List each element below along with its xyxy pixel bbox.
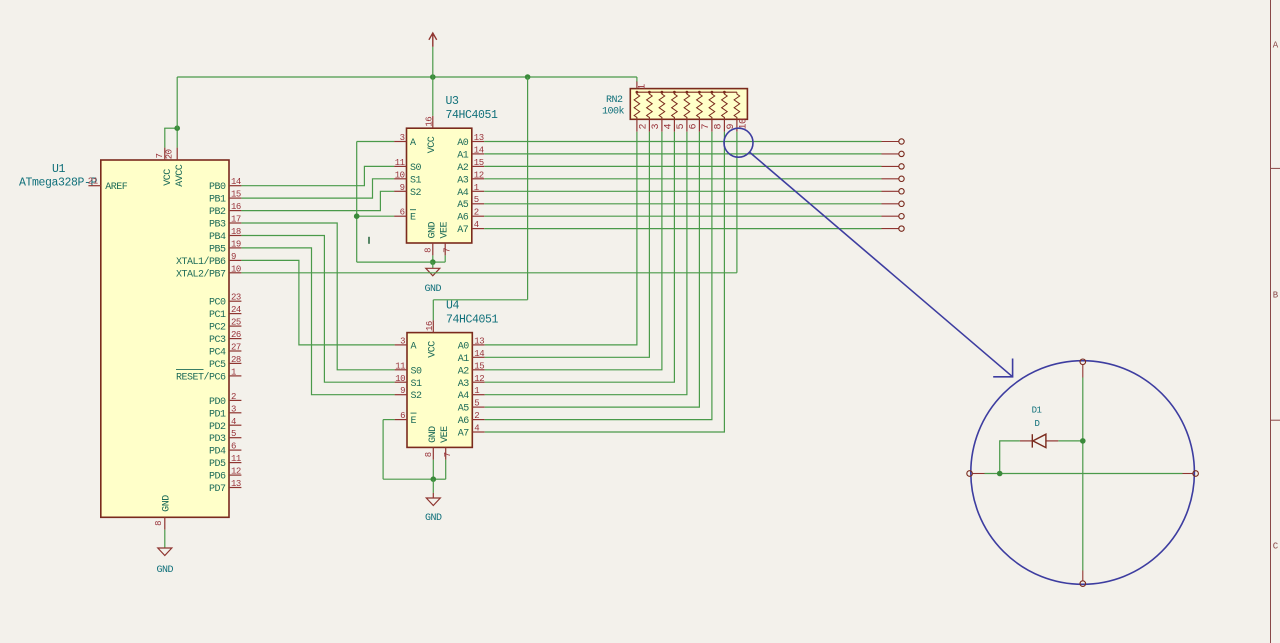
svg-text:10: 10 — [395, 170, 405, 180]
svg-text:VEE: VEE — [440, 221, 451, 238]
RN2 pin 3 — [648, 119, 650, 131]
svg-text:4: 4 — [474, 424, 479, 434]
svg-text:PB5: PB5 — [209, 244, 226, 255]
svg-text:A4: A4 — [458, 391, 470, 402]
svg-text:11: 11 — [395, 158, 405, 168]
RN2 resistor element 9 zigzag — [722, 92, 728, 119]
svg-text:PC3: PC3 — [209, 335, 226, 346]
U4 pin VEE (7) — [445, 447, 447, 459]
svg-text:26: 26 — [231, 330, 241, 340]
node left open circle — [967, 471, 973, 477]
svg-text:A1: A1 — [457, 150, 469, 161]
callout big circle — [971, 361, 1195, 585]
U1 pin XTAL2/PB7 (10) — [229, 272, 241, 274]
sheet frame right border — [1270, 0, 1272, 643]
svg-text:PB0: PB0 — [209, 182, 226, 193]
svg-text:20: 20 — [165, 149, 175, 159]
svg-text:1: 1 — [637, 84, 648, 90]
U3 pin A2 (15) — [472, 165, 484, 167]
wire U4 GND pin down — [432, 460, 434, 479]
U1 pin PC5 (28) — [229, 362, 241, 364]
IC U4 74HC4051 body — [407, 333, 472, 448]
wire U4 GND node to symbol — [432, 479, 434, 493]
wire U4 VEE pin down — [445, 460, 447, 479]
svg-text:2: 2 — [474, 208, 479, 218]
svg-text:7: 7 — [701, 124, 712, 130]
svg-text:6: 6 — [689, 124, 700, 130]
U4 pin S1 (10) — [395, 381, 407, 383]
wire RN2 pin 7 to U4 A5 — [485, 132, 700, 407]
U3 pin A0 (13) — [472, 141, 484, 143]
wire horizontal through circle — [972, 473, 984, 475]
open connection circle A4 — [899, 189, 904, 194]
svg-text:S1: S1 — [411, 379, 423, 390]
RN2 resistor element 4 zigzag — [659, 92, 665, 119]
node right open circle — [1193, 471, 1199, 477]
svg-text:PB1: PB1 — [209, 195, 226, 206]
svg-text:A7: A7 — [457, 225, 469, 236]
wire U3 A1 output — [484, 153, 881, 155]
svg-text:PD1: PD1 — [209, 409, 226, 420]
svg-text:16: 16 — [424, 117, 434, 127]
RN2 resistor element 8 zigzag — [709, 92, 715, 119]
svg-text:15: 15 — [474, 158, 484, 168]
U1 pin GND (8) — [164, 517, 166, 529]
svg-text:15: 15 — [474, 361, 484, 371]
RN2 resistor element 10 zigzag — [734, 92, 740, 119]
wire RN2 pin 10 column — [736, 132, 738, 273]
RN2 resistor element 7 zigzag — [697, 92, 703, 119]
junction rail / U4 VCC feed — [525, 74, 531, 80]
svg-text:D: D — [1035, 419, 1040, 429]
U1 pin XTAL1/PB6 (9) — [229, 259, 241, 261]
RN2 pin 4 — [661, 119, 663, 131]
svg-text:10: 10 — [231, 264, 241, 274]
wire PB0 to U3 S0 — [241, 166, 394, 185]
svg-text:GND: GND — [427, 221, 438, 238]
svg-text:VCC: VCC — [428, 341, 439, 358]
svg-text:PD5: PD5 — [209, 459, 226, 470]
svg-text:GND: GND — [428, 426, 439, 443]
U1 pin PD6 (12) — [229, 474, 241, 476]
wire U3 GND node to symbol — [432, 262, 434, 268]
RN2 common rail — [637, 91, 737, 93]
wire U4 VEE to GND — [433, 478, 445, 480]
wire U3 A2 output — [484, 165, 881, 167]
svg-text:1: 1 — [474, 183, 479, 193]
wire XTAL2/PB7 to RN2 pin 10 — [241, 272, 737, 274]
wire PB3 to U4 S0 — [241, 223, 394, 370]
U1 pin PC0 (23) — [229, 300, 241, 302]
svg-text:XTAL1/PB6: XTAL1/PB6 — [176, 256, 226, 268]
U1 pin RESET/PC6 (1) — [229, 375, 241, 377]
wire U3 A3 output — [484, 178, 881, 180]
wire RN2 pin 8 to U4 A6 — [485, 132, 712, 420]
U3 pin A5 (5) — [472, 203, 484, 205]
open connection circle A2 — [899, 164, 904, 169]
svg-text:U1: U1 — [52, 163, 66, 176]
open connection circle A5 — [899, 201, 904, 206]
U3 pin VEE (7) — [444, 243, 446, 255]
diode D1 — [1020, 440, 1032, 442]
U1 pin PD1 (3) — [229, 412, 241, 414]
svg-text:3: 3 — [651, 124, 662, 130]
ground symbol below U3 — [426, 268, 440, 276]
RN2 pin 10 — [736, 119, 738, 131]
svg-text:23: 23 — [231, 293, 241, 303]
RN2 pin 7 — [698, 119, 700, 131]
U3 pin S1 (10) — [394, 178, 406, 180]
callout arrow line — [750, 152, 1013, 377]
RN2 resistor element 2 zigzag — [634, 92, 640, 119]
svg-text:9: 9 — [400, 183, 405, 193]
wire U3 A/E ground riser — [356, 142, 358, 263]
svg-text:4: 4 — [474, 220, 479, 230]
wire U3 A0 output — [484, 141, 881, 143]
svg-text:17: 17 — [231, 215, 241, 225]
svg-text:A3: A3 — [458, 379, 470, 390]
svg-text:PB2: PB2 — [209, 207, 226, 218]
svg-text:S0: S0 — [411, 366, 423, 377]
svg-text:ATmega328P-P: ATmega328P-P — [19, 177, 98, 190]
U1 pin PD2 (4) — [229, 424, 241, 426]
U1 pin PD7 (13) — [229, 487, 241, 489]
svg-text:PB3: PB3 — [209, 220, 226, 231]
U1 pin PC1 (24) — [229, 313, 241, 315]
svg-text:8: 8 — [714, 124, 725, 130]
U4 pin A3 (12) — [472, 381, 484, 383]
svg-text:VCC: VCC — [427, 136, 438, 153]
svg-text:9: 9 — [231, 252, 236, 262]
RN2 resistor element 6 zigzag — [684, 92, 690, 119]
wire PB2 to U3 S2 — [241, 191, 394, 210]
callout arrow head — [993, 359, 1012, 377]
VCC power symbol arrow — [432, 47, 434, 77]
svg-text:A2: A2 — [457, 163, 469, 174]
wire RN2 pin 2 to U4 A0 — [485, 132, 637, 345]
svg-text:6: 6 — [400, 411, 405, 421]
svg-text:5: 5 — [474, 195, 479, 205]
U1 pin PC3 (26) — [229, 338, 241, 340]
open connection circle A3 — [899, 176, 904, 181]
wire U3 A6 output — [484, 215, 881, 217]
junction U4 GND node — [431, 476, 437, 482]
svg-text:D1: D1 — [1032, 405, 1042, 415]
wire XTAL1/PB6 to U4 A — [241, 260, 394, 345]
svg-text:27: 27 — [231, 343, 241, 353]
svg-text:S2: S2 — [410, 188, 422, 199]
svg-text:VEE: VEE — [440, 426, 451, 443]
svg-text:1: 1 — [474, 386, 479, 396]
svg-text:21: 21 — [88, 177, 98, 187]
RN2 resistor element 3 zigzag — [647, 92, 653, 119]
svg-text:GND: GND — [425, 513, 442, 524]
junction above AVCC — [174, 125, 180, 131]
svg-text:PC1: PC1 — [209, 310, 226, 321]
svg-text:13: 13 — [231, 479, 241, 489]
svg-text:A: A — [410, 138, 416, 149]
wire rail riser to U4 VCC — [527, 77, 529, 300]
svg-text:RN2: RN2 — [606, 95, 623, 106]
U3 pin A3 (12) — [472, 178, 484, 180]
svg-text:VCC: VCC — [163, 169, 174, 186]
U4 pin GND (8) — [432, 447, 434, 459]
U4 pin A0 (13) — [472, 344, 484, 346]
svg-text:6: 6 — [231, 442, 236, 452]
svg-text:A0: A0 — [457, 138, 469, 149]
svg-text:25: 25 — [231, 318, 241, 328]
RN2 pin 5 — [673, 119, 675, 131]
U1 pin PD3 (5) — [229, 437, 241, 439]
wire U3 A7 output — [484, 228, 881, 230]
wire rail to RN2 pin 1 — [636, 77, 638, 82]
U1 pin VCC (7) — [164, 148, 166, 160]
svg-text:A1: A1 — [458, 354, 470, 365]
stray cursor mark — [368, 237, 370, 244]
wire U3 VEE pin down — [444, 255, 446, 262]
svg-text:E: E — [410, 213, 416, 224]
IC U1 ATmega328P-P body — [101, 160, 229, 517]
svg-text:U4: U4 — [446, 299, 460, 312]
wire RN2 pin 3 to U4 A1 — [485, 132, 650, 358]
junction U3 GND node — [430, 259, 436, 265]
VCC power rail horizontal — [177, 76, 637, 78]
U3 pin A4 (1) — [472, 190, 484, 192]
U4 pin A5 (5) — [472, 406, 484, 408]
svg-text:8: 8 — [154, 521, 164, 526]
svg-text:AREF: AREF — [105, 182, 128, 193]
svg-text:5: 5 — [676, 124, 687, 130]
svg-text:7: 7 — [443, 452, 453, 457]
svg-text:4: 4 — [664, 124, 675, 130]
svg-text:74HC4051: 74HC4051 — [446, 313, 499, 326]
U1 pin PB1 (15) — [229, 197, 241, 199]
svg-text:74HC4051: 74HC4051 — [446, 109, 499, 122]
open connection circle A0 — [899, 139, 904, 144]
junction diode branch — [997, 471, 1003, 477]
U3 pin A7 (4) — [472, 228, 484, 230]
IC U3 74HC4051 body — [407, 128, 472, 243]
svg-text:9: 9 — [400, 386, 405, 396]
RN2 pin 9 — [723, 119, 725, 131]
wire VCC-AVCC jog — [164, 127, 177, 129]
svg-text:6: 6 — [400, 208, 405, 218]
wire to U3 pin A — [357, 141, 394, 143]
svg-text:28: 28 — [231, 355, 241, 365]
svg-text:GND: GND — [162, 495, 173, 512]
wire U3 GND pin down — [432, 255, 434, 262]
svg-text:S1: S1 — [410, 175, 422, 186]
U3 pin VCC (16) — [432, 116, 434, 128]
svg-text:RESET/PC6: RESET/PC6 — [176, 371, 226, 383]
ground symbol below U1 — [158, 548, 172, 556]
svg-text:E: E — [411, 416, 417, 427]
resistor network RN2 body — [630, 89, 747, 120]
U1 pin PB5 (19) — [229, 247, 241, 249]
svg-text:11: 11 — [395, 361, 405, 371]
svg-text:5: 5 — [231, 429, 236, 439]
svg-text:3: 3 — [231, 404, 236, 414]
svg-text:A4: A4 — [457, 188, 469, 199]
junction diode to vertical — [1080, 438, 1086, 444]
svg-text:13: 13 — [474, 133, 484, 143]
wire VCC pin up — [164, 128, 166, 147]
svg-text:GND: GND — [425, 284, 442, 295]
U4 pin A7 (4) — [472, 431, 484, 433]
svg-text:14: 14 — [474, 145, 484, 155]
wire diode branch — [1000, 441, 1020, 474]
wire U4 E down — [382, 420, 384, 480]
U1 pin AREF (21) — [88, 185, 100, 187]
svg-text:19: 19 — [231, 239, 241, 249]
svg-text:8: 8 — [424, 248, 434, 253]
svg-text:A5: A5 — [457, 200, 469, 211]
svg-text:A6: A6 — [458, 416, 470, 427]
svg-text:PD2: PD2 — [209, 422, 226, 433]
wire down to U4 VCC pin — [432, 300, 434, 320]
U4 pin A1 (14) — [472, 356, 484, 358]
U1 pin PB4 (18) — [229, 235, 241, 237]
svg-text:24: 24 — [231, 305, 241, 315]
svg-text:S2: S2 — [411, 391, 423, 402]
svg-text:PC0: PC0 — [209, 298, 226, 309]
svg-text:2: 2 — [231, 392, 236, 402]
svg-text:PD0: PD0 — [209, 397, 226, 408]
wire RN2 pin 6 to U4 A4 — [485, 132, 687, 395]
U3 pin E (6) — [394, 215, 406, 217]
U3 pin A1 (14) — [472, 153, 484, 155]
U4 pin S2 (9) — [395, 394, 407, 396]
svg-text:GND: GND — [157, 565, 174, 576]
svg-text:PC4: PC4 — [209, 348, 226, 359]
svg-text:15: 15 — [231, 190, 241, 200]
svg-text:U3: U3 — [446, 95, 460, 108]
svg-text:PC2: PC2 — [209, 323, 226, 334]
open connection circle A6 — [899, 214, 904, 219]
svg-text:5: 5 — [474, 399, 479, 409]
open connection circle A7 — [899, 226, 904, 231]
svg-text:A6: A6 — [457, 213, 469, 224]
wire vertical through circle — [1082, 365, 1084, 378]
svg-text:14: 14 — [474, 349, 484, 359]
junction rail / U3 VCC — [430, 74, 436, 80]
wire rail to U3 VCC — [432, 77, 434, 116]
U1 pin PC4 (27) — [229, 350, 241, 352]
U1 pin PB3 (17) — [229, 222, 241, 224]
RN2 pin 2 — [636, 119, 638, 131]
U4 pin A4 (1) — [472, 394, 484, 396]
svg-text:A2: A2 — [458, 366, 470, 377]
svg-text:10: 10 — [395, 374, 405, 384]
U1 pin PC2 (25) — [229, 325, 241, 327]
U1 pin PD0 (2) — [229, 399, 241, 401]
wire AVCC pin up — [176, 128, 178, 147]
callout small circle around RN2 pin 10 — [724, 128, 753, 157]
svg-text:1: 1 — [231, 367, 236, 377]
wire PB5 to U4 S2 — [241, 248, 394, 395]
svg-text:S0: S0 — [410, 163, 422, 174]
svg-text:12: 12 — [474, 374, 484, 384]
svg-text:A7: A7 — [458, 429, 470, 440]
svg-text:3: 3 — [400, 133, 405, 143]
U3 pin S2 (9) — [394, 190, 406, 192]
wire U4 E to ground node — [383, 478, 433, 480]
wire AVCC rail riser — [176, 77, 178, 129]
svg-text:A5: A5 — [458, 404, 470, 415]
wire U3 VEE to GND — [433, 261, 445, 263]
svg-text:11: 11 — [231, 454, 241, 464]
RN2 pin 1 — [636, 81, 638, 89]
svg-text:PD6: PD6 — [209, 472, 226, 483]
svg-text:3: 3 — [400, 336, 405, 346]
wire RN2 pin 5 to U4 A3 — [485, 132, 675, 383]
svg-text:18: 18 — [231, 227, 241, 237]
node bottom open circle — [1080, 581, 1086, 587]
U3 pin S0 (11) — [394, 165, 406, 167]
svg-text:A: A — [411, 341, 417, 352]
U4 pin E (6) — [395, 419, 407, 421]
U1 pin PD5 (11) — [229, 462, 241, 464]
svg-text:100k: 100k — [602, 106, 625, 118]
wire U1 GND pin to ground symbol — [164, 530, 166, 548]
wire PB1 to U3 S1 — [241, 179, 394, 198]
svg-text:AVCC: AVCC — [175, 164, 186, 187]
svg-text:13: 13 — [474, 336, 484, 346]
node top open circle — [1080, 359, 1086, 365]
wire RN2 pin 4 to U4 A2 — [485, 132, 662, 370]
wire to U3 pin E — [357, 215, 394, 217]
svg-text:16: 16 — [425, 321, 435, 331]
U1 pin PB2 (16) — [229, 210, 241, 212]
wire to U4 VCC horizontal — [433, 299, 527, 301]
svg-text:A0: A0 — [458, 341, 470, 352]
wire RN2 pin 9 to U4 A7 — [485, 132, 725, 432]
svg-text:12: 12 — [231, 467, 241, 477]
svg-text:2: 2 — [639, 124, 650, 130]
svg-text:XTAL2/PB7: XTAL2/PB7 — [176, 268, 226, 280]
wire U3 A5 output — [484, 203, 881, 205]
junction E riser — [354, 213, 360, 219]
U4 pin A2 (15) — [472, 369, 484, 371]
U4 pin S0 (11) — [395, 369, 407, 371]
svg-text:14: 14 — [231, 177, 241, 187]
svg-text:4: 4 — [231, 417, 236, 427]
U3 pin A (3) — [394, 141, 406, 143]
svg-text:7: 7 — [443, 248, 453, 253]
open connection circle A1 — [899, 151, 904, 156]
U4 pin A6 (2) — [472, 419, 484, 421]
U4 pin A (3) — [395, 344, 407, 346]
wire riser to U3 ground node — [357, 261, 433, 263]
svg-text:PB4: PB4 — [209, 232, 226, 243]
svg-text:PC5: PC5 — [209, 360, 226, 371]
U1 pin PB0 (14) — [229, 185, 241, 187]
U1 pin AVCC (20) — [176, 148, 178, 160]
svg-text:12: 12 — [474, 170, 484, 180]
svg-text:PD7: PD7 — [209, 484, 226, 495]
wire U4 E left — [383, 419, 395, 421]
svg-text:A3: A3 — [457, 175, 469, 186]
RN2 resistor element 5 zigzag — [672, 92, 678, 119]
svg-text:7: 7 — [155, 154, 165, 159]
U4 pin VCC (16) — [432, 320, 434, 332]
U3 pin A6 (2) — [472, 215, 484, 217]
wire PB4 to U4 S1 — [241, 236, 394, 383]
svg-text:PD3: PD3 — [209, 434, 226, 445]
svg-text:16: 16 — [231, 202, 241, 212]
ground symbol below U4 — [426, 498, 440, 506]
U3 pin GND (8) — [432, 243, 434, 255]
